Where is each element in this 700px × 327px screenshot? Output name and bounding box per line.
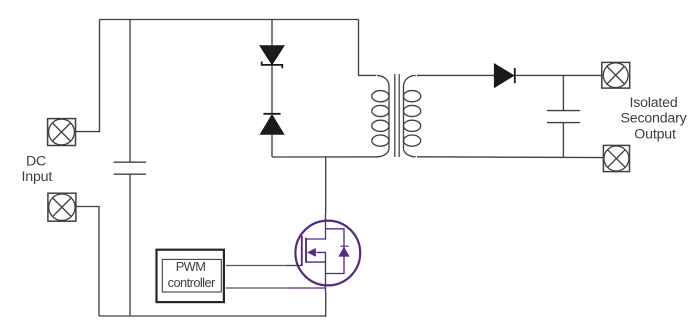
wire: output diode to output+ terminal bbox=[515, 74, 602, 76]
MOSFET substrate arrow bbox=[307, 248, 316, 257]
MOSFET body circle bbox=[295, 221, 360, 286]
svg-text:PWM: PWM bbox=[176, 259, 206, 274]
MOSFET gate lead bbox=[287, 265, 302, 267]
PWM controller block bbox=[157, 250, 224, 302]
svg-text:Output: Output bbox=[634, 126, 676, 142]
wire: left drop from top rail to DC+ terminal bbox=[76, 20, 100, 132]
MOSFET gate bar bbox=[301, 236, 303, 266]
wire: PWM source sense bbox=[226, 287, 289, 289]
wire: zener to blocking diode bbox=[271, 65, 273, 114]
wire: top rail bbox=[100, 19, 359, 21]
capacitor C_out bbox=[547, 111, 580, 123]
wire: output capacitor to secondary return bbox=[562, 123, 564, 158]
wire: secondary top to output diode bbox=[417, 74, 494, 76]
transformer secondary winding bbox=[404, 75, 421, 156]
MOSFET channel bar bbox=[305, 238, 307, 263]
svg-text:DC: DC bbox=[26, 154, 46, 170]
wire: PWM gate drive bbox=[226, 265, 287, 267]
wire: blocking diode down to primary return bbox=[271, 134, 273, 157]
terminal DC+ (crossed-circle port) bbox=[48, 119, 76, 146]
diode (snubber blocking, cathode up) bbox=[260, 114, 283, 135]
capacitor C_in bbox=[114, 162, 146, 174]
wire: secondary bottom return bbox=[417, 156, 603, 159]
wire: input capacitor to bottom rail bbox=[129, 174, 131, 316]
wire: top rail down to transformer primary bbox=[359, 20, 377, 76]
wire: MOSFET source to bottom rail bbox=[325, 292, 327, 317]
diode: output rectifier bbox=[494, 64, 514, 87]
wire: top rail to input capacitor bbox=[129, 20, 131, 162]
wire: top rail to snubber zener bbox=[271, 20, 273, 47]
svg-text:controller: controller bbox=[168, 275, 216, 290]
terminal output+ (crossed-circle port) bbox=[602, 62, 630, 88]
svg-text:Secondary: Secondary bbox=[620, 111, 687, 127]
transformer primary winding bbox=[372, 75, 389, 156]
svg-text:Isolated: Isolated bbox=[629, 95, 677, 111]
MOSFET source lead bbox=[325, 262, 327, 292]
svg-text:Input: Input bbox=[22, 169, 53, 185]
zener/TVS diode (snubber, cathode up) bbox=[260, 46, 284, 69]
wire: primary bottom return bbox=[272, 156, 377, 158]
MOSFET body diode connection bbox=[326, 229, 345, 274]
terminal output- (crossed-circle port) bbox=[603, 145, 629, 171]
wire: output node down to output capacitor bbox=[562, 75, 564, 110]
transformer core bbox=[395, 74, 399, 157]
MOSFET drain stub bbox=[306, 213, 326, 239]
MOSFET source stubs bbox=[306, 252, 326, 262]
wire: DC- terminal to bottom rail bbox=[76, 207, 99, 317]
wire: bottom rail bbox=[99, 315, 326, 317]
terminal DC- (crossed-circle port) bbox=[48, 193, 76, 221]
transistor Q1: power MOSFET (N-channel with body diode) bbox=[287, 213, 361, 292]
wire: drain drop from primary return bbox=[325, 157, 327, 214]
MOSFET body diode triangle bbox=[338, 247, 349, 257]
MOSFET source connection lead bbox=[289, 287, 326, 289]
MOSFET body diode cathode bar bbox=[340, 245, 348, 247]
